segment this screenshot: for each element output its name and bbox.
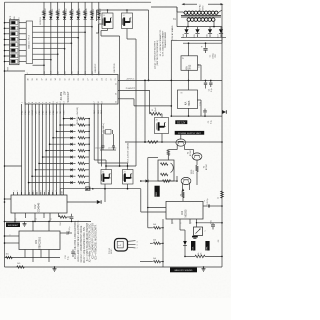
wire vdd drop bbox=[144, 80, 146, 142]
regulator IC5 KA7812 bbox=[181, 56, 198, 71]
mains terminal arrows 230V AC bbox=[182, 3, 185, 5]
transistor T2 BC547 bbox=[192, 153, 202, 160]
diode D18 bbox=[141, 180, 146, 182]
bridge rectifier diodes D14-D17 1N4007 bbox=[186, 27, 188, 30]
wire 5V rail bbox=[171, 115, 222, 117]
wire right column bbox=[162, 219, 164, 267]
wire RB7 column bbox=[93, 104, 95, 160]
wire bridge lower bus 1 bbox=[181, 36, 226, 38]
wire bridge left down bbox=[170, 40, 172, 116]
wire mains right drop bbox=[221, 4, 223, 10]
wire secondary leads bbox=[187, 21, 189, 26]
wire mid bottom bbox=[148, 227, 150, 229]
wire Q3 source bbox=[104, 184, 106, 189]
wire mains left drop bbox=[151, 6, 177, 8]
capacitor C1 1000u 35V bbox=[205, 43, 207, 47]
resistor R14 bbox=[57, 213, 59, 217]
preset VR1 4k7 bbox=[194, 227, 203, 236]
resistor R15 1k5 bbox=[6, 256, 13, 258]
IC3 left pins bbox=[5, 235, 20, 237]
wire speaker bottom bbox=[167, 180, 169, 182]
wire drop to IC3 bbox=[32, 222, 34, 232]
IC socket ZIF1 40-pin bbox=[25, 75, 118, 105]
ground arrow GND1 bbox=[97, 200, 101, 204]
transformer X1 secondary winding bbox=[187, 18, 190, 21]
wire RB6 column bbox=[97, 104, 99, 163]
wire bridge lower bus 2 bbox=[177, 39, 222, 41]
wire Q2 out bbox=[126, 29, 128, 40]
wire left rail to socket pin 1 bbox=[5, 70, 26, 72]
wire mosfet top rail bbox=[97, 9, 149, 11]
IC2 bottom pin stubs bbox=[14, 213, 16, 222]
wire Q1 out bbox=[107, 29, 109, 31]
wire T3 leads bbox=[182, 184, 184, 190]
wire RB5 column bbox=[100, 104, 102, 167]
wire c2 gnd bbox=[205, 87, 207, 89]
wire h line 106 bbox=[134, 105, 171, 107]
resistor R23 in right rail bbox=[221, 191, 224, 198]
resistor R19 5k6 bbox=[150, 242, 153, 244]
resistor R16 1k5 bbox=[17, 266, 25, 268]
label inverse VOL bbox=[191, 241, 195, 251]
ground GND3 bbox=[23, 223, 27, 225]
pushbutton S1 (inverse label) bbox=[6, 223, 20, 228]
resistor R21 bbox=[195, 255, 205, 258]
wire row up bbox=[176, 176, 178, 181]
wire mid rail bbox=[125, 141, 222, 143]
wire primary leads bbox=[183, 11, 184, 14]
wire Q4 source bbox=[127, 184, 129, 189]
label BUZZER (inverse) bbox=[155, 186, 160, 197]
wire drive bus B bbox=[135, 39, 137, 166]
wire top-left mosfet feed bbox=[96, 10, 98, 21]
wire rail to reset row bbox=[4, 201, 6, 203]
wire D1 to bus bbox=[90, 188, 141, 190]
transformer X1 core bbox=[181, 14, 221, 16]
ground arrow GND2 bbox=[222, 110, 226, 114]
IC4 right pin cap C11 bbox=[203, 205, 208, 207]
wire 7805 com stub bbox=[197, 99, 201, 101]
wire socket gnd pin bbox=[118, 98, 134, 100]
diodes D2-D13 1N4148 with series resistors bbox=[70, 117, 72, 120]
label inverse SPK bbox=[205, 241, 209, 251]
wire Q2 drain bbox=[126, 10, 128, 13]
wires SW1 to left rail with junctions bbox=[5, 22, 10, 24]
MOSFET Q3 IRF540 bbox=[101, 170, 112, 185]
wire rail row 221 bbox=[4, 221, 6, 223]
ground GND4 bbox=[53, 268, 57, 270]
wire right rail bbox=[221, 10, 223, 267]
capacitor C6 bbox=[102, 145, 105, 147]
wire top rail bbox=[5, 1, 152, 3]
wire T1 emitter bbox=[176, 146, 178, 150]
IC4 NE555 bbox=[166, 201, 203, 219]
IC3 bottom pins bbox=[24, 250, 26, 258]
matrix row wires with junctions bbox=[64, 118, 71, 120]
package drawing TO-92 bbox=[115, 239, 128, 252]
resistor R10 bbox=[148, 141, 158, 144]
wire drive bus A bbox=[119, 36, 121, 166]
capacitor C3 0.1u bbox=[204, 113, 206, 116]
capacitor C10 bbox=[72, 250, 74, 252]
wire cross join bbox=[106, 165, 136, 167]
ground bar VR1 bbox=[192, 236, 198, 238]
wire bridge top bus bbox=[177, 26, 222, 28]
wire 7805 in bbox=[188, 80, 190, 90]
wire bridge lower bus 3 bbox=[183, 42, 222, 44]
wire vcc riser bbox=[148, 10, 150, 80]
wire speaker top bbox=[148, 157, 158, 159]
wire C1 to 7812 bbox=[188, 43, 190, 56]
wire T2 to T3 bbox=[196, 172, 198, 186]
IC2 top pins bbox=[13, 192, 15, 195]
transistor T1 BC547 bbox=[176, 139, 186, 146]
resistor R13 bbox=[163, 180, 171, 183]
matrix column wires from socket bbox=[21, 104, 23, 195]
wire IC4 pin to Vcc cap bbox=[197, 222, 223, 224]
resistor R18 5k6 bbox=[150, 227, 153, 229]
resistor R12 bbox=[196, 166, 198, 172]
IC2 CD4040 bbox=[11, 195, 67, 213]
ground GND5 bbox=[202, 268, 206, 270]
LED array LED2-LED9 with series resistors R? bbox=[43, 2, 45, 11]
wires SW1 to RNW1 bbox=[19, 22, 26, 24]
wire socket Vpp bbox=[118, 89, 150, 91]
wire IC4 left bbox=[148, 207, 166, 209]
capacitor C7 bbox=[112, 145, 115, 147]
wire 12V rail bbox=[145, 79, 222, 81]
wire 7812 out bbox=[188, 70, 190, 80]
wire 7812 com stub bbox=[198, 64, 202, 66]
junction diode bus top bbox=[88, 188, 90, 190]
capacitor C8 10u bbox=[71, 214, 73, 216]
resistor R20 5k6 bbox=[140, 261, 153, 263]
wire left rail junction mid bbox=[4, 165, 6, 167]
wire Q1 drain bbox=[107, 10, 109, 13]
diode D20 black bbox=[179, 224, 181, 230]
diode bus wire bbox=[88, 119, 90, 189]
MOSFET Q2 IRF9540 bbox=[122, 13, 133, 29]
label POWER SUPPLY (inverse) bbox=[175, 131, 205, 135]
wire row 257 bbox=[5, 257, 61, 259]
wire T2 emitter bbox=[196, 160, 198, 165]
wire 7805 out bbox=[188, 108, 190, 116]
resistor R11 bbox=[167, 150, 169, 156]
wire Q1 gate bbox=[99, 23, 103, 25]
MOSFET Q4 IRF540 bbox=[123, 170, 134, 185]
capacitor C14 0.05 bbox=[212, 223, 214, 224]
regulator IC6 KA7805 bbox=[178, 90, 198, 109]
speaker LS1 box bbox=[158, 160, 174, 181]
wire crystal caps bbox=[102, 147, 104, 150]
wire vert from row bbox=[147, 158, 149, 208]
wire socket Vcc bbox=[118, 79, 145, 81]
DIP switch SW1 (8-way) bbox=[10, 20, 20, 65]
resistor R17 to Vcc bbox=[182, 192, 184, 198]
wire bottom rail bbox=[5, 266, 223, 268]
wire vert from D1 row bbox=[140, 189, 142, 212]
wire IC2 vdd bbox=[59, 189, 61, 195]
inductor L1 bbox=[150, 112, 161, 115]
crystal X2 4MHz bbox=[106, 130, 112, 135]
wire IC2 left pin bbox=[5, 198, 12, 200]
IC4 bottom pins bbox=[171, 219, 173, 224]
address bus staircase wires bbox=[33, 26, 92, 28]
resistor network RNW1 box bbox=[26, 21, 32, 64]
capacitor C2 0.1u bbox=[205, 80, 207, 82]
IC3 right cap C9 bbox=[60, 232, 66, 234]
MOSFET Q5 switch box bbox=[155, 118, 169, 134]
IC3 box bbox=[19, 231, 60, 250]
wire left border rail bbox=[4, 2, 6, 267]
wire IC2 to ground bbox=[67, 201, 97, 203]
capacitor C4 470u bbox=[210, 80, 212, 82]
diode bus junctions bbox=[89, 118, 90, 119]
transistor T3 BC547 bbox=[181, 177, 191, 184]
label DC 12V (inverse) bbox=[175, 120, 187, 124]
MOSFET Q1 IRF9540 bbox=[102, 13, 113, 29]
transformer X1 primary winding bbox=[184, 11, 187, 14]
wire bridge right join bbox=[221, 27, 223, 44]
label SOUND (inverse) bbox=[170, 268, 197, 273]
wire bridge left stub bbox=[176, 7, 178, 27]
wire q5 down bbox=[161, 134, 163, 143]
wire T1 collector bbox=[184, 146, 186, 150]
LED1 indicator bbox=[60, 188, 85, 190]
